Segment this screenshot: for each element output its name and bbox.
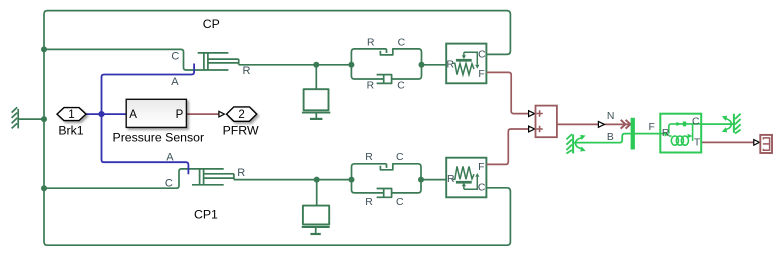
svg-text:C: C [396, 197, 404, 208]
svg-text:F: F [478, 69, 484, 80]
svg-text:C: C [478, 49, 486, 60]
svg-text:C: C [397, 81, 405, 92]
svg-text:R: R [243, 65, 251, 77]
svg-text:R: R [447, 60, 455, 71]
svg-text:Pressure Sensor: Pressure Sensor [113, 131, 205, 145]
svg-text:F: F [478, 162, 484, 173]
svg-text:R: R [365, 197, 373, 208]
svg-text:PFRW: PFRW [223, 123, 259, 137]
svg-text:CP: CP [203, 17, 220, 31]
svg-text:2: 2 [238, 109, 244, 121]
svg-text:C: C [692, 117, 700, 128]
svg-text:C: C [398, 38, 406, 49]
svg-text:F: F [649, 122, 655, 133]
svg-text:C: C [396, 152, 404, 163]
svg-text:A: A [166, 152, 174, 164]
svg-text:R: R [367, 81, 375, 92]
svg-text:N: N [607, 111, 615, 122]
svg-text:Brk1: Brk1 [58, 124, 83, 138]
svg-text:R: R [367, 38, 375, 49]
svg-text:CP1: CP1 [194, 208, 218, 222]
svg-text:P: P [176, 109, 184, 121]
svg-text:A: A [171, 76, 179, 88]
svg-text:B: B [607, 132, 614, 143]
svg-text:R: R [237, 167, 245, 179]
svg-text:R: R [662, 128, 670, 139]
svg-text:R: R [447, 174, 455, 185]
svg-text:R: R [365, 152, 373, 163]
svg-text:C: C [171, 51, 179, 63]
svg-text:A: A [129, 109, 137, 121]
svg-text:1: 1 [68, 109, 74, 121]
svg-text:C: C [165, 178, 173, 190]
svg-text:C: C [478, 183, 486, 194]
svg-text:T: T [694, 137, 701, 148]
